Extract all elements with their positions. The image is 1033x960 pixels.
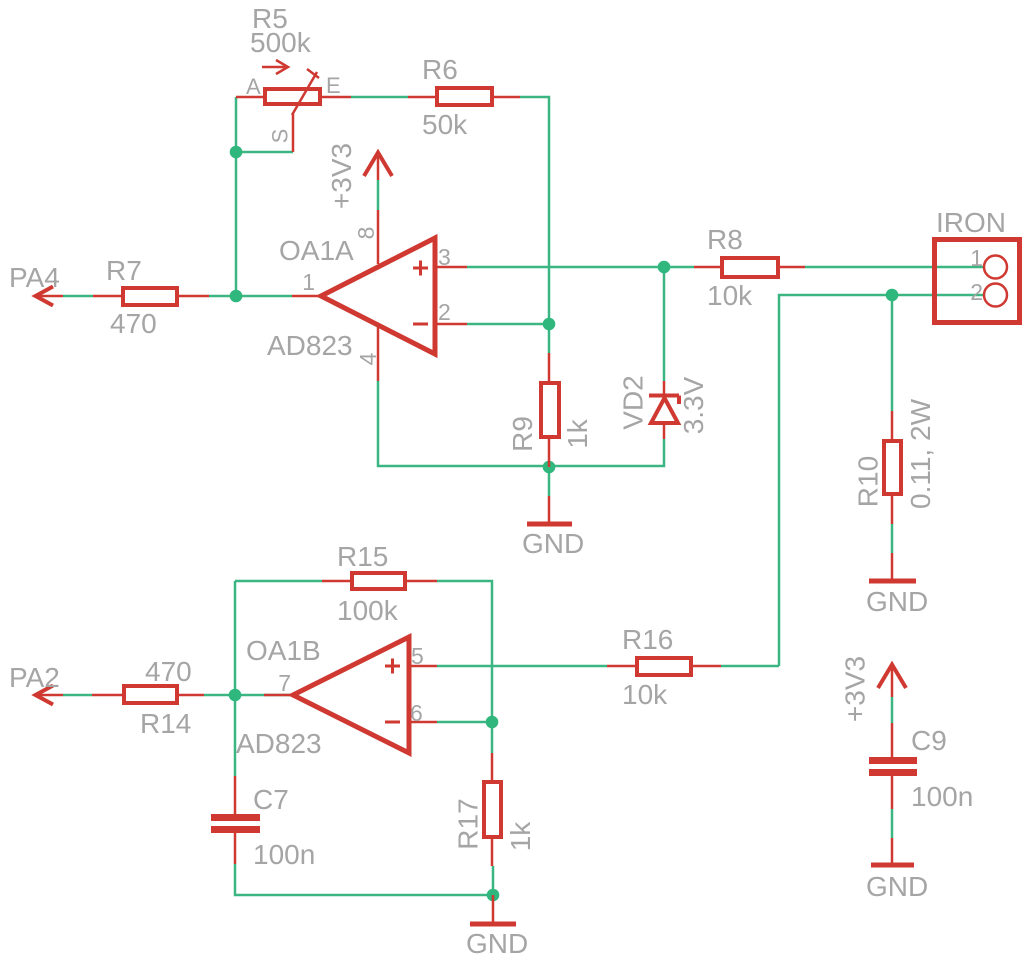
svg-text:GND: GND [466, 928, 528, 959]
svg-text:100k: 100k [337, 595, 399, 626]
label R10 value 0.11, 2W [905, 398, 936, 509]
junction node C7 / R17 / GND [487, 889, 500, 902]
wire R14 to pin7 [204, 694, 292, 697]
svg-text:3: 3 [438, 244, 451, 270]
label R5 pin A [246, 74, 261, 99]
svg-text:AD823: AD823 [267, 330, 353, 361]
label GND (R17) [466, 928, 528, 959]
wire net PA4 left vertical bus [236, 97, 293, 296]
resistor R6 [408, 88, 520, 105]
svg-text:0.11, 2W: 0.11, 2W [905, 398, 936, 509]
label C7 name [253, 784, 289, 815]
svg-text:470: 470 [110, 308, 157, 339]
label R8 name [707, 224, 743, 255]
label R14 name [140, 708, 191, 739]
label C9 value 100n [911, 781, 973, 812]
wire pin3 to R8 junction [467, 266, 694, 269]
junction node R9 bottom / GND rail [543, 461, 556, 474]
wire C9 to GND [891, 809, 894, 838]
svg-text:5: 5 [411, 643, 424, 669]
junction node pin6 / R15 / R17 [486, 716, 499, 729]
svg-text:100n: 100n [253, 839, 315, 870]
label R9 name [507, 416, 538, 452]
wire feedback left to R15 [235, 580, 322, 583]
zener diode VD2 [649, 381, 679, 439]
wire IRON pin2 junction down to R10 [891, 295, 894, 411]
label R16 name [622, 624, 673, 655]
pin number 7 [278, 670, 291, 696]
svg-text:1: 1 [970, 245, 983, 271]
label R5 pin E [326, 73, 341, 98]
op-amp U1A OA1A [292, 210, 467, 381]
svg-text:R16: R16 [622, 624, 673, 655]
wire R8 junction down to VD2 [663, 267, 666, 381]
wire pin2 stub [467, 323, 549, 326]
svg-text:R17: R17 [453, 798, 484, 849]
svg-text:R14: R14 [140, 708, 191, 739]
label net PA4 [9, 262, 60, 293]
label C7 value 100n [253, 839, 315, 870]
wire bottom rail pin4 to VD2 [378, 381, 664, 466]
svg-text:R8: R8 [707, 224, 743, 255]
svg-text:100n: 100n [911, 781, 973, 812]
label R9 value 1k [562, 418, 593, 449]
wire R15 down to pin6 junction [437, 581, 492, 753]
label +3V3 (bottom) [840, 656, 871, 722]
wire R5.E to R6 [351, 96, 408, 99]
label VD2 name [618, 375, 649, 429]
junction node pin2 / R9 [543, 318, 556, 331]
svg-text:R7: R7 [106, 255, 142, 286]
wire PA4 to R7 [63, 295, 93, 298]
label +3V3 (top) [326, 143, 357, 209]
label C9 name [911, 725, 947, 756]
wire R8 to IRON pin1 [805, 266, 984, 269]
svg-text:PA2: PA2 [9, 662, 60, 693]
svg-text:470: 470 [145, 656, 192, 687]
label VD2 value 3.3v [678, 376, 709, 434]
svg-text:C7: C7 [253, 784, 289, 815]
junction node IRON pin2 / R10 [886, 289, 899, 302]
pin number 2 [438, 299, 451, 325]
svg-text:500k: 500k [250, 27, 312, 58]
resistor R14 [92, 686, 204, 703]
svg-text:OA1A: OA1A [279, 235, 354, 266]
label R15 value 100k [337, 595, 399, 626]
svg-text:C9: C9 [911, 725, 947, 756]
svg-text:10k: 10k [707, 280, 753, 311]
junction node R14 / pin7 / C7 [229, 689, 242, 702]
svg-text:4: 4 [355, 352, 381, 365]
svg-text:8: 8 [353, 227, 379, 240]
net arrow PA2 [35, 686, 63, 705]
label net PA2 [9, 662, 60, 693]
wire R6 to op-amp pin2 and R9 [520, 97, 549, 353]
power +3V3 (top) [364, 152, 392, 180]
label OA1A [279, 235, 354, 266]
pin number 4 [355, 352, 381, 365]
junction node R7 / pin1 [230, 290, 243, 303]
resistor R16 [607, 658, 721, 675]
pin number 3 [438, 244, 451, 270]
svg-text:2: 2 [970, 279, 983, 305]
pin number 1 (IRON) [970, 245, 983, 271]
resistor R8 [694, 258, 805, 277]
svg-text:1k: 1k [505, 821, 536, 852]
label R5 value 500k [250, 27, 312, 58]
label R7 value 470 [110, 308, 157, 339]
label AD823 (B) [236, 728, 322, 759]
svg-text:R15: R15 [337, 541, 388, 572]
connector IRON [935, 240, 1020, 323]
resistor R15 [322, 573, 437, 589]
pin number 5 [411, 643, 424, 669]
wire R16 right lead to riser [721, 665, 779, 668]
junction node pin3 / R8 / VD2 [658, 261, 671, 274]
svg-text:GND: GND [866, 586, 928, 617]
label R14 value 470 [145, 656, 192, 687]
capacitor C9 [869, 723, 917, 809]
svg-text:R6: R6 [422, 54, 458, 85]
svg-text:1: 1 [302, 269, 315, 295]
label GND (R10) [866, 586, 928, 617]
label R10 name [853, 456, 884, 507]
svg-text:10k: 10k [622, 679, 668, 710]
wire pin5 to R16 [437, 665, 607, 668]
wire R10 to GND [891, 524, 894, 553]
resistor R7 [93, 288, 209, 305]
wire R7 to pin1 [209, 295, 292, 298]
wire R16 up to IRON pin2 [779, 295, 984, 666]
svg-text:R9: R9 [507, 416, 538, 452]
label R5 name [252, 3, 288, 34]
capacitor C7 [211, 776, 260, 864]
label GND (R9) [522, 528, 584, 559]
pin number 8 [353, 227, 379, 240]
svg-text:50k: 50k [422, 109, 468, 140]
wire +3V3 to pin8 [377, 180, 380, 210]
svg-text:7: 7 [278, 670, 291, 696]
svg-text:3.3V: 3.3V [678, 376, 709, 434]
svg-text:1k: 1k [562, 418, 593, 449]
label IRON [936, 207, 1006, 238]
svg-text:R10: R10 [853, 456, 884, 507]
label GND (C9) [866, 871, 928, 902]
svg-text:E: E [326, 73, 341, 98]
svg-text:2: 2 [438, 299, 451, 325]
label AD823 (A) [267, 330, 353, 361]
ground GND (R9) [527, 496, 572, 524]
label OA1B [246, 635, 321, 666]
ground GND (R10) [869, 553, 916, 581]
ground GND (C9) [871, 838, 914, 865]
resistor R17 [484, 753, 501, 866]
wire C7 bottom rail to R17 [235, 864, 493, 895]
junction node R5.S / bus [230, 146, 243, 159]
svg-text:GND: GND [866, 871, 928, 902]
svg-text:+3V3: +3V3 [840, 656, 871, 722]
wire PA2 to R14 [63, 694, 92, 697]
wire GND stub below R9 junction [548, 467, 551, 496]
power +3V3 (bottom) [878, 664, 906, 697]
op-amp U1B OA1B [264, 637, 437, 753]
potentiometer R5 [236, 60, 351, 152]
svg-text:VD2: VD2 [618, 375, 649, 429]
svg-text:+3V3: +3V3 [326, 143, 357, 209]
resistor R9 [541, 353, 559, 467]
svg-text:A: A [246, 74, 261, 99]
resistor R10 [884, 411, 901, 524]
ground GND (R17) [470, 895, 516, 924]
pin number 2 (IRON) [970, 279, 983, 305]
label R17 value 1k [505, 821, 536, 852]
label R6 name [422, 54, 458, 85]
svg-text:GND: GND [522, 528, 584, 559]
svg-text:AD823: AD823 [236, 728, 322, 759]
label R16 value 10k [622, 679, 668, 710]
pin number 1 [302, 269, 315, 295]
label R8 value 10k [707, 280, 753, 311]
wire feedback vertical at R14 junction [234, 581, 237, 776]
svg-text:OA1B: OA1B [246, 635, 321, 666]
wire +3V3 to C9 [891, 697, 894, 723]
label R6 value 50k [422, 109, 468, 140]
svg-text:S: S [268, 129, 293, 144]
label R7 name [106, 255, 142, 286]
svg-text:IRON: IRON [936, 207, 1006, 238]
svg-text:6: 6 [410, 700, 423, 726]
net arrow PA4 [35, 287, 63, 306]
label R15 name [337, 541, 388, 572]
pin number 6 [410, 700, 423, 726]
wire pin6 stub [437, 721, 492, 724]
label R17 name [453, 798, 484, 849]
svg-text:PA4: PA4 [9, 262, 60, 293]
label R5 pin S [268, 129, 293, 144]
